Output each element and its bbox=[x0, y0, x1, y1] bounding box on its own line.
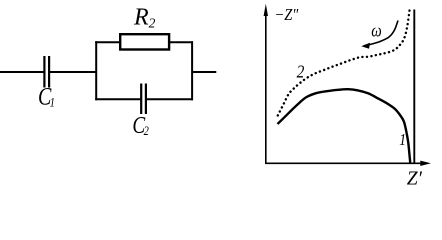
node A: parallel block left rail bbox=[95, 41, 97, 100]
asymptote vertical line bbox=[413, 10, 415, 164]
svg-text:−Z″: −Z″ bbox=[275, 6, 299, 24]
curve 1: solid impedance arc bbox=[278, 89, 411, 162]
svg-text:ω: ω bbox=[371, 20, 381, 41]
svg-text:R2: R2 bbox=[133, 5, 156, 31]
wire: bottom rail right segment bbox=[146, 98, 193, 100]
wire: top rail right segment bbox=[169, 41, 194, 43]
curve 2: dotted impedance curve bbox=[278, 9, 410, 116]
svg-text:Z′: Z′ bbox=[407, 169, 423, 189]
wire: left input lead bbox=[0, 71, 44, 73]
svg-text:C2: C2 bbox=[132, 112, 149, 139]
x-axis (Z' axis) bbox=[265, 161, 431, 166]
wire: C1 to parallel block bbox=[49, 71, 97, 73]
resistor R2 bbox=[120, 34, 169, 49]
wire: top rail left segment bbox=[95, 41, 121, 43]
wire: bottom rail left segment bbox=[95, 98, 141, 100]
capacitor C2 bbox=[141, 84, 146, 115]
svg-text:2: 2 bbox=[297, 61, 305, 81]
svg-text:C1: C1 bbox=[38, 82, 55, 110]
y-axis (-Z'' axis) bbox=[264, 4, 268, 164]
node B: parallel block right rail bbox=[191, 41, 193, 100]
omega direction arrow bbox=[361, 21, 398, 49]
svg-text:1: 1 bbox=[399, 130, 406, 149]
capacitor C1 bbox=[44, 56, 49, 88]
wire: right output lead bbox=[192, 71, 216, 73]
